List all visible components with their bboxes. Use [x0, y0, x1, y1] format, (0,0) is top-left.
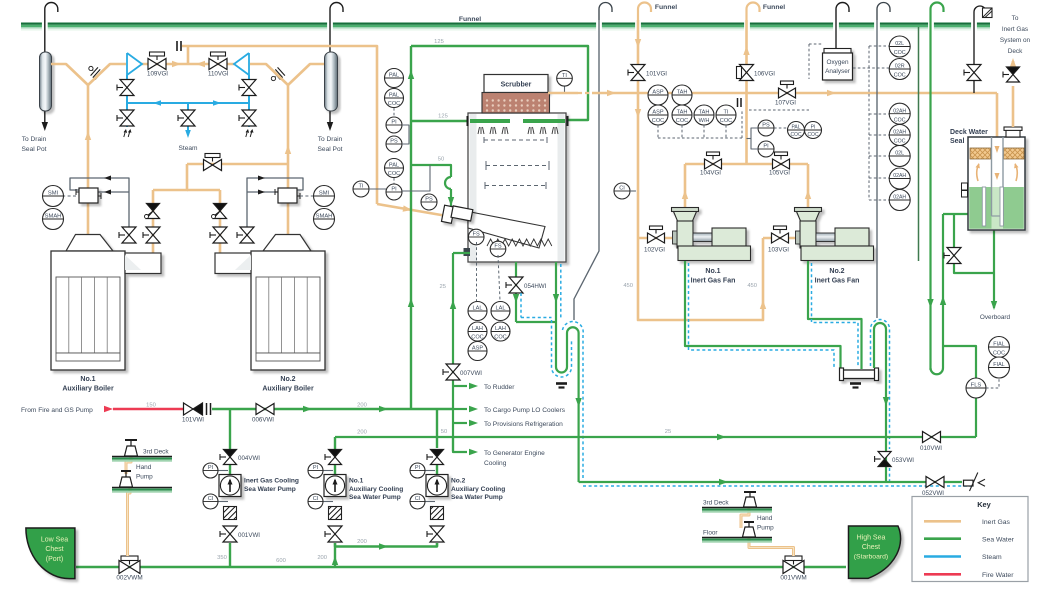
scrubber top box: [484, 75, 548, 93]
svg-text:006VWI: 006VWI: [252, 417, 274, 424]
bracket PI/PS to riser: [402, 125, 409, 144]
capped drain connection symbol: [964, 480, 974, 486]
svg-text:Inert Gas Cooling: Inert Gas Cooling: [244, 478, 299, 485]
svg-text:COC: COC: [894, 139, 906, 145]
svg-text:COC: COC: [471, 334, 483, 340]
instrument TI (scrubber shell): [353, 181, 369, 197]
scrubber tray level 3 (dashed): [485, 185, 546, 187]
deck seal gauge nub: [962, 183, 968, 190]
svg-text:FIAL: FIAL: [993, 362, 1004, 368]
svg-text:Low Sea: Low Sea: [41, 537, 68, 544]
scrubber shell nub: [464, 248, 471, 256]
svg-text:To Generator Engine: To Generator Engine: [484, 450, 545, 457]
instrument PS (wash water): [421, 194, 437, 210]
svg-text:No.1: No.1: [705, 268, 720, 275]
valve no2 boiler branch lower: [210, 227, 227, 243]
svg-text:Auxiliary Boiler: Auxiliary Boiler: [62, 386, 114, 393]
svg-text:FIAL: FIAL: [993, 342, 1004, 348]
svg-text:Oxygen: Oxygen: [826, 59, 848, 66]
instrument TI/COC: [716, 105, 736, 125]
svg-text:SMAH: SMAH: [316, 214, 333, 220]
scrubber shell: [468, 113, 566, 262]
svg-text:001VWM: 001VWM: [780, 575, 806, 582]
svg-text:LAL: LAL: [496, 306, 506, 312]
dashed link analyser to O2 instruments: [853, 67, 889, 69]
svg-text:CI: CI: [208, 496, 214, 502]
no1 boiler gas riser loop piping: [70, 178, 129, 243]
wire: tan no1 fan discharge riser: [684, 164, 687, 211]
wire: tan funnel riser x638: [637, 20, 640, 238]
no2 boiler gas riser loop piping: [247, 178, 303, 243]
svg-text:Hand: Hand: [136, 464, 152, 471]
valve 052VWI: [926, 477, 944, 488]
svg-text:02AH: 02AH: [893, 108, 906, 114]
deck seal water volume: [969, 187, 1024, 229]
wire: tan no2 boiler feed below control box: [287, 203, 290, 237]
wire: green no1 aux pump suction runs: [335, 543, 437, 547]
svg-text:Auxiliary Boiler: Auxiliary Boiler: [262, 386, 314, 393]
wire: tan left hand pump piping: [126, 455, 131, 474]
pump no1 auxiliary cooling sea water pump: [324, 475, 346, 497]
svg-text:No.2: No.2: [451, 478, 466, 485]
svg-text:Floor: Floor: [703, 530, 718, 537]
wire: tan branch to no1 boiler drum: [152, 190, 155, 253]
instrument O2AH 2: [889, 190, 910, 211]
valve atomizing steam supply: [205, 154, 220, 162]
wire: gray vent riser from seal loop to funnel: [876, 20, 878, 318]
svg-text:101VWI: 101VWI: [182, 417, 204, 424]
wire: tan no1 fan suction: [638, 237, 672, 240]
instrument O2AH/COC lower: [889, 125, 910, 146]
wire: to generator engine takeoff: [453, 437, 467, 452]
wire: green supply into deck seal: [943, 213, 968, 215]
instrument PAL/COC upper: [385, 89, 404, 108]
svg-text:PAL: PAL: [389, 93, 399, 99]
instrument O2L/COC: [889, 36, 910, 57]
overboard symbol scrubber drain: [556, 382, 567, 385]
svg-text:25: 25: [665, 429, 671, 435]
svg-text:COC: COC: [652, 118, 664, 124]
svg-text:TAH: TAH: [677, 90, 688, 96]
valve 104VGI: [707, 152, 720, 160]
suction valve (no1 auxiliary cooling sea water pump): [325, 526, 342, 542]
svg-text:SMAH: SMAH: [45, 214, 62, 220]
instrument FIAL/COC: [989, 337, 1010, 358]
no1 boiler control box: [79, 188, 98, 203]
valve 006VWI: [256, 404, 274, 415]
instrument O2R/COC: [889, 59, 910, 80]
dashed link FLS to FIAL: [986, 378, 999, 388]
wire: steam left drop from cone: [126, 75, 128, 103]
wire: green services manifold x453: [452, 253, 454, 451]
wire: funnel drain line to loop seal: [574, 20, 599, 320]
valve 054HWI: [506, 277, 523, 293]
svg-text:Sea Water Pump: Sea Water Pump: [451, 494, 503, 501]
wire: tan right Y left arm to steam cone: [250, 64, 288, 85]
wire: green no1 fan cooling drain: [685, 261, 841, 370]
valve 007VWI: [443, 364, 460, 380]
svg-text:107VGI: 107VGI: [775, 100, 796, 107]
valve 102VGI: [650, 226, 663, 234]
instrument FS upper (scrubber): [468, 229, 484, 245]
svg-text:PAL: PAL: [791, 125, 800, 131]
check valve discharge (no1 auxiliary cooling sea water pump): [325, 450, 342, 465]
scrubber external inlet duct: [441, 205, 472, 223]
wire: green scrubber riser x411: [410, 46, 412, 409]
instrument FS lower (scrubber): [490, 241, 506, 257]
deck seal centre inlet pipe: [991, 137, 993, 216]
svg-text:PI: PI: [415, 465, 421, 471]
svg-text:110VGI: 110VGI: [208, 71, 229, 78]
hand pump lower (right): [744, 521, 754, 523]
deck seal outlet nozzle: [1006, 130, 1020, 137]
svg-text:3rd Deck: 3rd Deck: [143, 449, 169, 456]
wire: tan left Y stem down to no1 boiler control box: [87, 85, 90, 188]
svg-text:106VGI: 106VGI: [754, 71, 775, 78]
dashed link FS to LAL (left): [476, 242, 478, 301]
svg-text:109VGI: 109VGI: [147, 71, 168, 78]
svg-text:COC: COC: [720, 118, 732, 124]
wire: tan atomizing line y164 from no2 stem: [187, 163, 288, 166]
no2 boiler control box: [278, 188, 297, 203]
tracing dash no1 fan drain: [689, 263, 835, 368]
wire: right drain pot outlet down: [329, 111, 331, 126]
valve 106VGI: [740, 65, 754, 81]
dashed link PAL/COC to PI: [393, 178, 395, 184]
valve 101VGI: [628, 65, 645, 81]
scrubber tray level 2 (dashed): [486, 165, 549, 167]
svg-text:LAL: LAL: [473, 306, 483, 312]
svg-text:Funnel: Funnel: [655, 4, 677, 11]
valve steam left upper: [117, 80, 134, 96]
instrument CI (no1 auxiliary cooling sea water pump): [323, 501, 334, 503]
svg-text:Overboard: Overboard: [980, 314, 1011, 321]
check valve discharge (inert gas cooling sea water pump): [220, 450, 237, 465]
wire: tan right Y stem down to no2 boiler control box: [287, 85, 290, 188]
svg-text:SMI: SMI: [319, 191, 330, 197]
instrument FLS: [966, 378, 986, 398]
wire: tan from right pot to Y junction: [288, 64, 324, 85]
valve 101VWI (non-return): [184, 403, 203, 415]
svg-text:PI: PI: [811, 125, 816, 131]
instrument SMI (no1 boiler): [43, 186, 64, 207]
svg-text:Deck: Deck: [1008, 48, 1023, 55]
svg-text:02L: 02L: [895, 151, 904, 157]
legend inert gas: [924, 520, 961, 523]
dashed link PAL column: [393, 108, 395, 117]
svg-text:Key: Key: [977, 500, 991, 509]
scrubber tray level 1 (dashed): [484, 139, 547, 141]
svg-text:CI: CI: [313, 496, 319, 502]
svg-text:Hand: Hand: [757, 515, 773, 522]
svg-text:125: 125: [434, 39, 444, 45]
wire: green deck seal overboard drain: [993, 230, 995, 308]
vent flame screen symbol: [983, 8, 993, 18]
svg-text:TI: TI: [359, 184, 364, 190]
wire: green no2 fan cooling drain: [808, 261, 862, 369]
svg-text:COC: COC: [807, 132, 819, 138]
blind flange pair at left end of y46 header: [176, 41, 178, 51]
svg-text:102VGI: 102VGI: [644, 247, 665, 254]
scrubber water surface zigzag: [487, 239, 552, 246]
svg-text:PI: PI: [208, 465, 214, 471]
instrument PAL/COC (IG main): [788, 122, 805, 139]
svg-text:PS: PS: [390, 139, 398, 145]
wire: left drain pot outlet down: [44, 111, 46, 126]
svg-text:007VWI: 007VWI: [460, 370, 482, 377]
pump inert gas cooling sea water pump: [219, 475, 241, 497]
svg-text:Seal: Seal: [950, 138, 964, 145]
svg-text:Cooling: Cooling: [484, 460, 507, 467]
svg-text:Sea Water: Sea Water: [982, 536, 1015, 543]
wire: green no1 auxiliary cooling sea water pump suction/discharge column: [334, 543, 336, 547]
svg-text:200: 200: [357, 430, 367, 436]
svg-text:Funnel: Funnel: [459, 16, 481, 23]
tracing dash no2 fan drain: [812, 263, 859, 366]
svg-text:Seal Pot: Seal Pot: [318, 146, 343, 153]
instrument CI (inert gas cooling sea water pump): [218, 501, 229, 503]
svg-text:Inert Gas: Inert Gas: [1002, 26, 1028, 33]
legend fire water: [924, 573, 961, 576]
spray header flanges: [467, 116, 469, 126]
instrument PS (scrubber gas): [386, 136, 402, 152]
high sea chest (starboard): [849, 526, 901, 578]
svg-text:50: 50: [438, 157, 444, 163]
svg-text:Seal Pot: Seal Pot: [22, 146, 47, 153]
svg-text:02AH: 02AH: [893, 173, 906, 179]
wire: steam supply center drop: [187, 103, 189, 130]
svg-text:System on: System on: [1000, 37, 1031, 44]
scrubber drain loop seal: [556, 322, 579, 482]
wire: tan fan suction crossover: [638, 238, 763, 320]
svg-text:PS: PS: [425, 197, 433, 203]
wire: tan no2 fan suction: [763, 237, 796, 240]
wire: tan discharge manifold y164: [685, 163, 808, 166]
svg-text:No.2: No.2: [829, 268, 844, 275]
svg-text:Inert Gas Fan: Inert Gas Fan: [815, 278, 860, 285]
wire: green spray branch left: [411, 120, 467, 122]
wire: tan valve line 109VGI-110VGI: [142, 63, 234, 66]
spring vent right: [246, 130, 253, 137]
svg-text:COC: COC: [790, 132, 802, 138]
svg-text:PI: PI: [313, 465, 319, 471]
wire: red fire main: [113, 408, 183, 411]
valve no1 boiler branch lower: [143, 227, 160, 243]
no1 auxiliary boiler body: [51, 235, 161, 371]
svg-text:COC: COC: [388, 101, 400, 107]
drain collection spool: [840, 368, 879, 381]
wire: green deck seal supply riser (up leg): [942, 214, 944, 368]
svg-text:Analyser: Analyser: [825, 68, 851, 75]
legend sea water: [924, 537, 961, 540]
wire: steam horizontal header: [127, 102, 249, 104]
svg-text:PAL: PAL: [389, 163, 399, 169]
dashed link FS to LAL (right): [498, 255, 500, 301]
svg-text:Steam: Steam: [178, 145, 198, 152]
svg-text:104VGI: 104VGI: [700, 170, 721, 177]
svg-text:TAH: TAH: [699, 110, 710, 116]
svg-text:Funnel: Funnel: [763, 4, 785, 11]
svg-text:LAH: LAH: [472, 326, 483, 332]
pump no2 auxiliary cooling sea water pump: [426, 475, 448, 497]
wire: green 054HWI drain: [515, 262, 517, 322]
no1 inert gas fan: [672, 208, 751, 261]
svg-text:Sea Water Pump: Sea Water Pump: [244, 486, 296, 493]
svg-text:TAH: TAH: [677, 110, 688, 116]
svg-text:Chest: Chest: [862, 544, 880, 551]
svg-text:101VGI: 101VGI: [646, 71, 667, 78]
instrument PI (scrubber water): [386, 184, 402, 200]
svg-text:W/H: W/H: [699, 118, 710, 124]
suction valve (no2 auxiliary cooling sea water pump): [427, 526, 444, 542]
svg-text:3rd Deck: 3rd Deck: [703, 500, 729, 507]
svg-text:COC: COC: [993, 351, 1005, 357]
spray header left segment: [470, 119, 510, 123]
valve deck seal vent: [964, 65, 981, 81]
svg-text:02AH: 02AH: [893, 195, 906, 201]
svg-text:004VWI: 004VWI: [238, 455, 260, 462]
instrument LAH/COC right: [491, 322, 510, 341]
svg-text:Auxiliary Cooling: Auxiliary Cooling: [349, 486, 403, 493]
wire: tan atomizing drop and split header: [153, 164, 187, 190]
right drain seal pot cylinder: [325, 52, 338, 111]
hand pump upper (left): [125, 439, 137, 441]
svg-text:350: 350: [217, 555, 227, 561]
svg-text:02AH: 02AH: [893, 130, 906, 136]
instrument O2AH/COC upper: [889, 103, 910, 124]
svg-text:105VGI: 105VGI: [769, 170, 790, 177]
wire: green scrubber bottom drain: [555, 262, 557, 322]
svg-text:COC: COC: [388, 171, 400, 177]
wire: tan deck seal outlet to deck system: [1012, 86, 1015, 127]
spray nozzles ticks: [478, 127, 484, 134]
svg-text:FLS: FLS: [971, 383, 982, 389]
wire: green drain horizontal to loop seal: [516, 321, 556, 323]
wire: left drain pot riser to funnel: [44, 20, 46, 52]
spray header right segment: [523, 119, 565, 123]
svg-text:25: 25: [440, 284, 446, 290]
scrubber inlet duct internal: [468, 212, 545, 249]
svg-text:CI: CI: [415, 496, 421, 502]
instrument SMAH (no2 boiler): [314, 209, 335, 230]
deck seal demister left: [970, 148, 991, 159]
dashed O2 instrument header: [868, 46, 870, 200]
instrument CI (fan suction): [614, 183, 630, 199]
valve deck seal outlet (non-return): [1003, 67, 1020, 82]
svg-text:450: 450: [747, 283, 757, 289]
valve 103VGI: [774, 226, 787, 234]
instrument LAH/COC left: [468, 322, 487, 341]
wire: green distribution main y409: [212, 408, 453, 410]
deck seal gas flow arrows: [995, 146, 1000, 153]
svg-text:02R: 02R: [895, 64, 905, 70]
wire: tan no1 boiler feed below control box: [87, 203, 90, 237]
instrument TAH (fan): [672, 85, 692, 105]
valve deck seal drain: [944, 248, 961, 264]
instrument O2AH 1: [889, 168, 910, 189]
wire: steam right vent drop: [248, 103, 250, 127]
valve steam left lower vent: [117, 110, 134, 126]
wire: tan deck seal inlet drop: [996, 93, 999, 138]
svg-text:Auxiliary Cooling: Auxiliary Cooling: [451, 486, 505, 493]
svg-text:200: 200: [357, 539, 367, 545]
hand pump lower (left): [121, 470, 131, 472]
deck seal inner tubes: [982, 187, 985, 226]
valve 107VGI: [781, 81, 794, 89]
svg-text:TI: TI: [562, 73, 567, 79]
wire: tan header y46 to scrubber inlet downcomer: [182, 46, 377, 204]
wire: right drain pot riser to funnel: [329, 20, 331, 52]
no1 boiler tube bank: [56, 277, 120, 353]
svg-text:125: 125: [438, 114, 448, 120]
svg-text:103VGI: 103VGI: [768, 247, 789, 254]
overboard symbol fan drains: [850, 382, 861, 385]
svg-text:CI: CI: [619, 186, 625, 192]
svg-text:PI: PI: [391, 187, 397, 193]
suction valve (inert gas cooling sea water pump): [220, 526, 237, 542]
svg-text:To Provisions Refrigeration: To Provisions Refrigeration: [484, 421, 563, 428]
svg-text:TI: TI: [724, 110, 729, 116]
deck water seal vessel: [968, 137, 1025, 230]
wire: tan no2 fan discharge riser: [807, 164, 810, 211]
wire: tan riser from valve line to y46 header: [187, 46, 190, 64]
svg-text:PS: PS: [762, 123, 770, 129]
wire: green no1 aux pump discharge: [334, 437, 336, 450]
dashed link control box to SMI (no1): [64, 195, 76, 197]
instrument PI (scrubber gas): [386, 117, 402, 133]
wire: tan left Y right arm to steam cone: [88, 64, 126, 85]
instrument PAL: [385, 69, 404, 88]
wire: green seal loop over spool: [874, 323, 886, 482]
wire: green deck seal supply riser (down leg): [929, 20, 931, 370]
wire: to rudder takeoff: [453, 385, 467, 387]
svg-text:To Drain: To Drain: [22, 136, 47, 143]
valve steam right lower vent: [239, 110, 256, 126]
wire: green service line y437: [335, 436, 976, 438]
wire: green suction riser from main: [334, 547, 336, 568]
svg-text:150: 150: [146, 403, 156, 409]
svg-text:To Cargo Pump LO Coolers: To Cargo Pump LO Coolers: [484, 407, 566, 414]
dashed sensing header fans: [657, 125, 659, 138]
instrument O2L: [889, 146, 910, 167]
wire: to cargo pump takeoff arrow: [469, 406, 478, 412]
dashed link PS to PAL/COC: [774, 127, 788, 129]
instrument TAH/COC: [672, 105, 692, 125]
svg-text:From Fire and GS Pump: From Fire and GS Pump: [21, 407, 93, 414]
steam cone left (blue funnel): [127, 53, 142, 75]
svg-text:FS: FS: [473, 232, 480, 238]
svg-text:200: 200: [357, 403, 367, 409]
scrubber demister (dotted): [482, 93, 550, 114]
svg-text:(Port): (Port): [46, 556, 64, 563]
svg-text:Pump: Pump: [136, 474, 153, 481]
instrument TI (scrubber top): [564, 86, 566, 93]
svg-text:To Rudder: To Rudder: [484, 384, 515, 391]
svg-text:Steam: Steam: [982, 554, 1002, 561]
wire: green sea water main y567: [76, 566, 846, 569]
wire: tan right hand pump piping: [741, 507, 749, 528]
svg-text:02L: 02L: [895, 41, 904, 47]
svg-text:FS: FS: [494, 244, 501, 250]
wire: tan IG main scrubber outlet: [548, 92, 578, 95]
svg-text:PI: PI: [763, 144, 769, 150]
svg-text:COC: COC: [894, 117, 906, 123]
instrument PI/COC (IG main): [805, 122, 822, 139]
instrument LAL left: [468, 302, 487, 321]
svg-text:002VWM: 002VWM: [116, 575, 142, 582]
wire: green overboard line y482: [579, 481, 962, 483]
svg-text:COC: COC: [676, 118, 688, 124]
